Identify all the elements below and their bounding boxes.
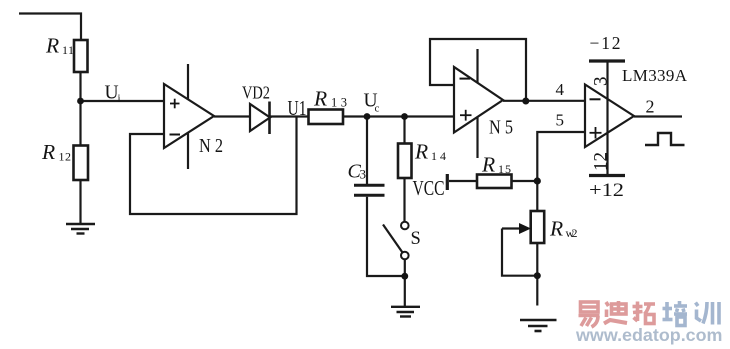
svg-text:+12: +12 xyxy=(589,180,624,201)
capacitor C3 xyxy=(354,184,385,187)
node switch-bottom dot xyxy=(401,273,408,280)
resistor R13 xyxy=(309,110,344,125)
watermark char tuo xyxy=(633,302,656,324)
svg-text:R: R xyxy=(45,34,59,58)
svg-text:LM339A: LM339A xyxy=(622,66,688,85)
N5 top power pin xyxy=(476,49,478,83)
LM339A output wire (pin 2) xyxy=(634,115,682,117)
wire switch to ground xyxy=(404,259,406,306)
wire node Ui to R12 handled above; wire R12 bottom to ground xyxy=(79,180,81,223)
op-amp N2 xyxy=(164,84,214,148)
LM339A bottom power bar (+12) xyxy=(589,174,625,177)
op-amp N5 xyxy=(454,67,503,133)
label N5 minus (drawn) xyxy=(460,78,471,80)
wire R14 to switch xyxy=(403,178,405,222)
wire R11 to node Ui xyxy=(79,72,81,146)
svg-text:3: 3 xyxy=(360,167,367,182)
switch S lever xyxy=(383,225,403,253)
svg-text:−12: −12 xyxy=(590,33,621,53)
svg-text:S: S xyxy=(411,229,421,249)
resistor R12 xyxy=(74,146,89,181)
resistor R11 xyxy=(74,40,88,72)
svg-text:4: 4 xyxy=(556,80,565,99)
wire C3 bottom to switch bottom xyxy=(367,197,402,276)
comparator LM339A xyxy=(585,85,634,148)
watermark char yi xyxy=(579,302,600,327)
pulse waveform symbol xyxy=(645,133,685,145)
Rw2 wiper arrow xyxy=(502,227,520,229)
wire N5 output (pin 4) to comparator xyxy=(503,100,585,102)
label N2 minus (drawn) xyxy=(170,134,181,136)
wire C3 branch down from Uc xyxy=(366,117,368,185)
svg-text:N 5: N 5 xyxy=(489,117,513,139)
N2 bottom power pin xyxy=(187,132,189,169)
watermark: Chinese characters drawn as strokes xyxy=(579,301,656,327)
resistor R15 xyxy=(477,175,512,189)
svg-text:c: c xyxy=(375,103,380,115)
watermark char pei xyxy=(663,301,688,326)
svg-text:i: i xyxy=(118,93,121,105)
svg-text:VCC: VCC xyxy=(413,176,445,200)
label N5 plus (drawn) xyxy=(460,110,472,121)
svg-text:R: R xyxy=(414,140,428,164)
wire VCC to R15 xyxy=(449,180,477,182)
ground (below switch) xyxy=(391,307,420,317)
svg-text:R: R xyxy=(549,217,563,241)
wire Rw2 wiper loop xyxy=(502,229,537,276)
svg-text:13: 13 xyxy=(331,96,347,110)
svg-text:11: 11 xyxy=(62,43,74,57)
label LM339A minus (drawn) xyxy=(590,98,601,100)
svg-text:2: 2 xyxy=(646,97,655,117)
wire top-left horizontal xyxy=(19,14,81,41)
svg-text:U1: U1 xyxy=(288,96,307,120)
N5 bottom power pin xyxy=(476,117,478,158)
node R14-top dot xyxy=(401,113,408,120)
diode VD2 xyxy=(250,104,270,131)
wire R14 branch down from node xyxy=(403,117,405,145)
watermark char xun xyxy=(696,302,720,325)
node Uc dot xyxy=(364,113,371,120)
svg-text:R: R xyxy=(41,140,55,164)
LM339A power rail vertical xyxy=(606,61,608,176)
watermark char di xyxy=(604,301,627,324)
N2 top power pin xyxy=(187,64,189,100)
wire Ui to N2 + input xyxy=(80,100,164,102)
svg-text:12: 12 xyxy=(591,152,612,171)
wire R13 to N5 + input xyxy=(343,115,454,117)
svg-text:14: 14 xyxy=(431,149,446,163)
wire node up to pin5 and right to comparator xyxy=(537,132,585,212)
wire Rw2 bottom to node xyxy=(536,243,538,306)
ground (below Rw2) xyxy=(520,320,557,331)
wire VCC tick xyxy=(446,174,449,190)
node Rw2-bottom dot xyxy=(534,272,541,279)
node Ui dot xyxy=(77,98,84,105)
svg-text:R: R xyxy=(313,87,327,111)
node R15-Rw2 dot xyxy=(534,177,541,184)
label LM339A plus (drawn) xyxy=(590,127,602,139)
node N5 output dot xyxy=(522,98,529,105)
wire N5 feedback loop xyxy=(430,39,526,101)
svg-text:5: 5 xyxy=(556,111,565,130)
resistor R14 xyxy=(398,144,412,179)
ground (below R12) xyxy=(66,224,95,234)
label N2 plus (drawn) xyxy=(170,99,180,109)
switch S bottom terminal xyxy=(401,252,409,260)
svg-text:w2: w2 xyxy=(566,226,578,240)
svg-text:VD2: VD2 xyxy=(242,83,270,103)
wire R15 to node xyxy=(512,180,538,182)
svg-text:3: 3 xyxy=(591,77,612,87)
switch S top terminal xyxy=(401,222,409,230)
svg-text:R: R xyxy=(481,153,495,177)
svg-text:15: 15 xyxy=(498,162,511,176)
LM339A top power bar (-12) xyxy=(589,59,625,62)
svg-text:12: 12 xyxy=(59,150,72,164)
wire diode to R13 xyxy=(270,115,309,117)
wire N2 feedback loop xyxy=(130,117,297,215)
svg-text:N 2: N 2 xyxy=(199,135,223,157)
potentiometer Rw2 body xyxy=(531,211,545,243)
svg-text:www.edatop.com: www.edatop.com xyxy=(575,325,722,345)
svg-text:U: U xyxy=(105,83,119,104)
wire N2 output to diode xyxy=(214,115,250,117)
